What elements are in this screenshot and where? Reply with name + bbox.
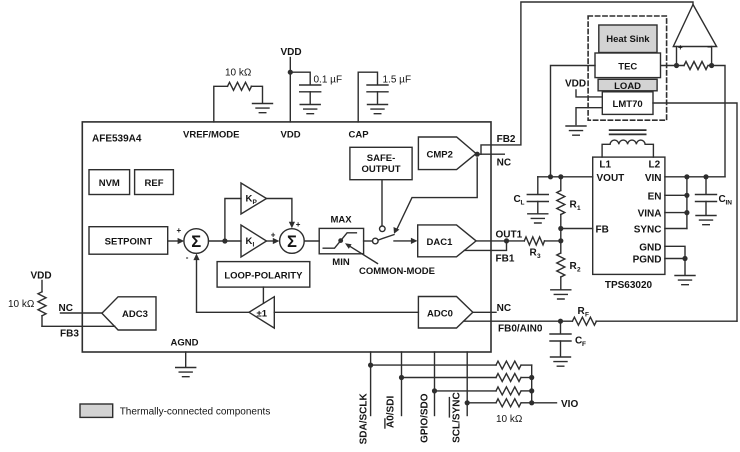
label VDD (left) (31, 271, 52, 282)
summing junction U-sum1 (184, 229, 209, 254)
label AGND (171, 338, 199, 349)
wire TEC to op-amp plus input (661, 65, 685, 67)
capacitor CIN (696, 177, 717, 215)
svg-text:P: P (253, 199, 258, 206)
svg-text:K: K (246, 236, 253, 247)
svg-text:Σ: Σ (287, 233, 297, 251)
svg-text:L1: L1 (599, 160, 611, 171)
label OUT1 (496, 230, 523, 241)
resistor R3 (507, 237, 561, 245)
label SCL/SYNC rotated with SYNC overline (449, 392, 462, 443)
wire EN to bus (665, 194, 687, 196)
svg-text:REF: REF (145, 178, 164, 189)
svg-text:Σ: Σ (191, 233, 201, 251)
svg-text:FB3: FB3 (60, 328, 79, 339)
wire FB3 (42, 325, 115, 327)
pin label L2 (649, 160, 661, 171)
svg-text:VDD: VDD (281, 130, 301, 141)
pin label EN (648, 191, 662, 202)
node VOUT TEC tap (548, 174, 553, 179)
wire FB0/AIN0 (464, 320, 561, 322)
label RF (578, 306, 590, 319)
pullup resistor SCL (467, 399, 532, 407)
node VIN bus tap (684, 174, 689, 179)
switch contact circle A (373, 238, 379, 244)
wire summer2 to limiter (304, 240, 319, 242)
wire Ki output to summer 2 with arrow (267, 238, 280, 244)
pin label CAP (349, 130, 370, 141)
wire op-amp minus input down to VIN rail (709, 66, 725, 177)
label FB2 (497, 134, 516, 145)
label CIN (719, 194, 733, 207)
pullup resistor GPIO (435, 387, 532, 395)
label FB3 (60, 328, 79, 339)
svg-text:Thermally-connected components: Thermally-connected components (120, 406, 271, 417)
common-mode control arrow into limiter (345, 243, 378, 263)
plus sign at summer 1 input (177, 226, 182, 235)
label NC (ADC0) (497, 303, 511, 314)
svg-text:Heat Sink: Heat Sink (606, 34, 650, 45)
svg-text:SETPOINT: SETPOINT (105, 237, 153, 248)
svg-text:OUTPUT: OUTPUT (361, 164, 400, 175)
svg-text:F: F (582, 341, 586, 348)
svg-text:AFE539A4: AFE539A4 (92, 134, 142, 145)
svg-text:OUT1: OUT1 (496, 230, 523, 241)
block ADC3 (102, 297, 156, 330)
wire VDD to LMT70 (576, 90, 602, 97)
svg-text:+: + (177, 226, 182, 235)
svg-text:LOAD: LOAD (614, 81, 641, 92)
plus sign at summer 2 left input (271, 231, 276, 240)
svg-text:1.5 µF: 1.5 µF (383, 74, 412, 85)
pullup bus vertical (531, 365, 533, 403)
amplifier plus-minus-1 (249, 297, 274, 328)
op-amp input stub right (711, 47, 713, 66)
svg-text:10 kΩ: 10 kΩ (496, 414, 523, 425)
wire ADC0 to polarity amp (274, 311, 418, 313)
node bus SCL (529, 400, 534, 405)
label 1.5uF (383, 74, 412, 85)
svg-text:10 kΩ: 10 kΩ (225, 68, 252, 79)
wire summer1 output to Ki (209, 240, 242, 242)
switch arm (378, 235, 394, 240)
label R1 (570, 200, 582, 213)
wire LMT70 output to feedback filter (653, 103, 737, 321)
bus EN/VINA/SYNC to VIN (686, 177, 688, 229)
wire SETPOINT to summer 1 with arrow (168, 238, 185, 244)
feedback wire to summer1 with arrow (193, 254, 249, 313)
plus sign at summer 2 top input (296, 220, 301, 229)
wire VIN rail (665, 176, 725, 178)
block NVM (89, 170, 130, 195)
pin label VIN (645, 173, 662, 184)
pin label SYNC (634, 225, 662, 236)
svg-text:VINA: VINA (638, 209, 662, 220)
wire VINA to bus (665, 212, 687, 214)
ground VREF resistor (253, 104, 273, 113)
node bus A0 (529, 375, 534, 380)
block SETPOINT (89, 227, 168, 255)
block LMT70 (602, 92, 653, 115)
resistor R1 (557, 177, 565, 229)
label CF (575, 336, 586, 349)
svg-text:+: + (271, 231, 276, 240)
svg-text:VREF/MODE: VREF/MODE (183, 130, 239, 141)
node CF tap (558, 319, 563, 324)
svg-text:SDA/SCLK: SDA/SCLK (359, 393, 370, 445)
svg-text:A0/SDI: A0/SDI (386, 396, 397, 428)
label FB0/AIN0 (498, 323, 543, 334)
svg-text:NC: NC (59, 303, 73, 314)
resistor across op-amp inputs (684, 62, 708, 70)
label 10 kOhm (pullups) (496, 414, 523, 425)
node VDD bypass tap (288, 70, 293, 75)
resistor R2 (557, 241, 565, 289)
label VDD (top) (281, 47, 302, 58)
block REF (135, 170, 174, 195)
ground CL (528, 214, 548, 223)
label R2 (570, 261, 582, 274)
wire SYNC to bus (665, 228, 687, 230)
label COMMON-MODE (359, 266, 435, 277)
svg-text:L2: L2 (649, 160, 661, 171)
node GPIO tap (432, 388, 437, 393)
ground TPS (675, 276, 695, 285)
digital pin wire A0/SDI (401, 352, 403, 416)
label 0.1uF (314, 74, 343, 85)
wire CMP2 to FB2 pin and up over the top to op-amp output (481, 2, 693, 154)
digital pin wire GPIO/SDO (434, 352, 436, 416)
wire DAC1 OUT1 (476, 240, 506, 242)
switch control wire from CMP2 with arrow (394, 158, 478, 234)
svg-text:I: I (253, 242, 255, 249)
legend text (120, 406, 271, 417)
wire VDD pin (289, 58, 291, 122)
node FB R3 R2 (558, 238, 563, 243)
label SDA/SCLK rotated (359, 393, 370, 445)
svg-text:SCL/SYNC: SCL/SYNC (452, 392, 463, 443)
node A0 tap (399, 375, 404, 380)
label 10 kOhm (left) (8, 299, 35, 310)
label FB1 (496, 254, 515, 265)
svg-text:ADC3: ADC3 (122, 309, 148, 320)
NC stub at CMP2 (477, 153, 504, 155)
svg-text:FB2: FB2 (497, 134, 516, 145)
svg-text:LOOP-POLARITY: LOOP-POLARITY (224, 271, 303, 282)
node PGND join (682, 256, 687, 261)
svg-text:2: 2 (577, 267, 581, 274)
node at CMP2 output (475, 152, 480, 157)
ground 1.5uF (368, 105, 388, 114)
svg-text:VOUT: VOUT (597, 173, 625, 184)
svg-text:VDD: VDD (565, 79, 586, 90)
label R3 (530, 248, 542, 261)
wire Kp output down into summer 2 with arrow (267, 199, 296, 229)
capacitor 1.5uF on CAP pin (358, 72, 388, 122)
resistor 10k VREF/MODE (214, 82, 263, 122)
block SAFE-OUTPUT (350, 147, 412, 179)
svg-text:NVM: NVM (99, 178, 120, 189)
pin label L1 (599, 160, 611, 171)
svg-text:GND: GND (639, 242, 661, 253)
pin label VREF/MODE (183, 130, 239, 141)
node SDA tap (368, 363, 373, 368)
label VDD (LMT70 supply) (565, 79, 586, 90)
wire FB pin (561, 228, 593, 230)
svg-text:VIN: VIN (645, 173, 662, 184)
block Heat Sink (599, 25, 657, 53)
op-amp plus input label (678, 43, 683, 52)
minus sign at summer 1 feedback input (186, 253, 189, 262)
block LOOP-POLARITY (217, 262, 310, 288)
ground AGND (176, 368, 196, 377)
wire VOUT rail (538, 176, 593, 178)
capacitor 0.1uF (290, 72, 320, 103)
svg-text:NC: NC (497, 158, 511, 169)
svg-text:PGND: PGND (633, 255, 662, 266)
label CL (514, 194, 525, 207)
node bus GPIO (529, 388, 534, 393)
svg-text:IN: IN (726, 200, 733, 207)
op-amp U1 TEC driver (673, 5, 716, 47)
capacitor CF (550, 321, 571, 356)
limiter block MAX/MIN clamp (319, 228, 363, 253)
svg-text:VDD: VDD (281, 47, 302, 58)
thermal coupling lines (610, 130, 646, 134)
wire branch up to Kp (225, 199, 241, 242)
node FB R1 (558, 226, 563, 231)
svg-text:1: 1 (577, 205, 581, 212)
svg-text:SYNC: SYNC (634, 225, 662, 236)
NC stub at ADC0 (473, 311, 496, 313)
svg-text:0.1 µF: 0.1 µF (314, 74, 343, 85)
svg-text:+: + (296, 220, 301, 229)
pullup resistor SDA (371, 361, 532, 369)
label A0/SDI rotated with A0 overline (385, 396, 397, 428)
label TPS63020 (605, 280, 653, 291)
pin label VOUT (597, 173, 625, 184)
AFE539A4 main block outline (82, 122, 491, 352)
svg-text:FB1: FB1 (496, 254, 515, 265)
wire PGND to ground (665, 258, 685, 260)
wire AGND to ground (185, 352, 187, 367)
svg-text:CAP: CAP (349, 130, 370, 141)
wire SAFE-OUTPUT down to switch contact B (381, 180, 383, 226)
node EN (684, 193, 689, 198)
ground 0.1uF (300, 105, 320, 114)
label MIN (332, 257, 350, 268)
svg-text:MIN: MIN (332, 257, 350, 268)
svg-text:+: + (678, 43, 683, 52)
node OUT1 (504, 238, 509, 243)
amplifier Ki (241, 225, 267, 257)
NC stub at ADC3 (61, 312, 102, 314)
op-amp minus input label (707, 43, 712, 52)
svg-text:10 kΩ: 10 kΩ (8, 299, 35, 310)
wire TEC left to VOUT rail (551, 66, 596, 177)
svg-text:3: 3 (537, 253, 541, 260)
svg-text:SAFE-: SAFE- (367, 153, 396, 164)
block TPS63020 (593, 157, 665, 274)
node op-amp plus input (674, 63, 679, 68)
svg-text:GPIO/SDO: GPIO/SDO (420, 393, 431, 443)
wire limiter to switch contact (364, 240, 373, 242)
label 10 kOhm (VREF) (225, 68, 252, 79)
block DAC1 (418, 225, 476, 257)
block TEC (595, 53, 661, 78)
svg-text:-: - (186, 253, 189, 262)
pin label GND (639, 242, 661, 253)
digital pin wire SDA/SCLK (370, 352, 372, 416)
wire GND to ground (665, 246, 685, 258)
svg-text:LMT70: LMT70 (613, 99, 643, 110)
resistor 10k pulldown left (38, 281, 46, 327)
wire FB1 loop (464, 241, 506, 251)
block LOAD (598, 79, 657, 92)
digital pin wire SCL/SYNC (466, 352, 468, 416)
dashed thermal boundary box (588, 16, 667, 120)
wire FB node vertical (560, 229, 562, 241)
label NC (ADC3) (59, 303, 73, 314)
pin label FB (596, 225, 609, 236)
svg-text:AGND: AGND (171, 338, 199, 349)
pin label VDD (281, 130, 301, 141)
node VIN CIN tap (703, 174, 708, 179)
pullup resistor A0 (402, 374, 532, 382)
resistor RF (561, 317, 738, 325)
label MAX (330, 215, 352, 226)
node junction after summer1 (222, 238, 227, 243)
node SCL tap (465, 400, 470, 405)
switch contact circle B safe-output (380, 226, 386, 232)
ground CF (551, 357, 571, 366)
wire switch to DAC1 with arrow (394, 238, 418, 244)
node VINA (684, 210, 689, 215)
svg-text:K: K (246, 194, 253, 205)
svg-text:FB0/AIN0: FB0/AIN0 (498, 323, 543, 334)
svg-text:EN: EN (648, 191, 662, 202)
block CMP2 (418, 137, 476, 170)
svg-text:MAX: MAX (330, 215, 352, 226)
label GPIO/SDO rotated (420, 393, 431, 443)
summing junction U-sum2 (280, 229, 305, 254)
svg-text:VIO: VIO (561, 399, 578, 410)
svg-text:L: L (521, 200, 525, 207)
label VIO (561, 399, 578, 410)
pin label VINA (638, 209, 662, 220)
ground LMT70 (566, 126, 586, 135)
inductor L between L1 and L2 (602, 140, 653, 157)
ground CIN (696, 216, 716, 225)
label AFE539A4 (92, 134, 142, 145)
node op-amp minus input (709, 63, 714, 68)
label NC (CMP2) (497, 158, 511, 169)
wire PGND down (684, 259, 686, 275)
svg-text:NC: NC (497, 303, 511, 314)
pin label PGND (633, 255, 662, 266)
svg-text:DAC1: DAC1 (427, 237, 454, 248)
wire LOOP-POLARITY to polarity amp (262, 287, 264, 303)
svg-text:F: F (585, 312, 589, 319)
wire LMT70 to ground (576, 108, 602, 125)
svg-text:±1: ±1 (257, 309, 268, 320)
svg-text:TEC: TEC (618, 62, 637, 73)
node VOUT R1 tap (558, 174, 563, 179)
svg-text:VDD: VDD (31, 271, 52, 282)
svg-text:CMP2: CMP2 (427, 150, 453, 161)
block ADC0 (418, 297, 472, 329)
svg-text:TPS63020: TPS63020 (605, 280, 653, 291)
wire to VIO (532, 402, 557, 404)
legend gray box (80, 404, 113, 417)
capacitor CL (527, 177, 548, 213)
svg-text:FB: FB (596, 225, 609, 236)
amplifier Kp (241, 183, 267, 214)
svg-text:COMMON-MODE: COMMON-MODE (359, 266, 435, 277)
op-amp input stub left (676, 47, 678, 66)
ground R2 (551, 290, 571, 299)
svg-text:ADC0: ADC0 (427, 308, 453, 319)
